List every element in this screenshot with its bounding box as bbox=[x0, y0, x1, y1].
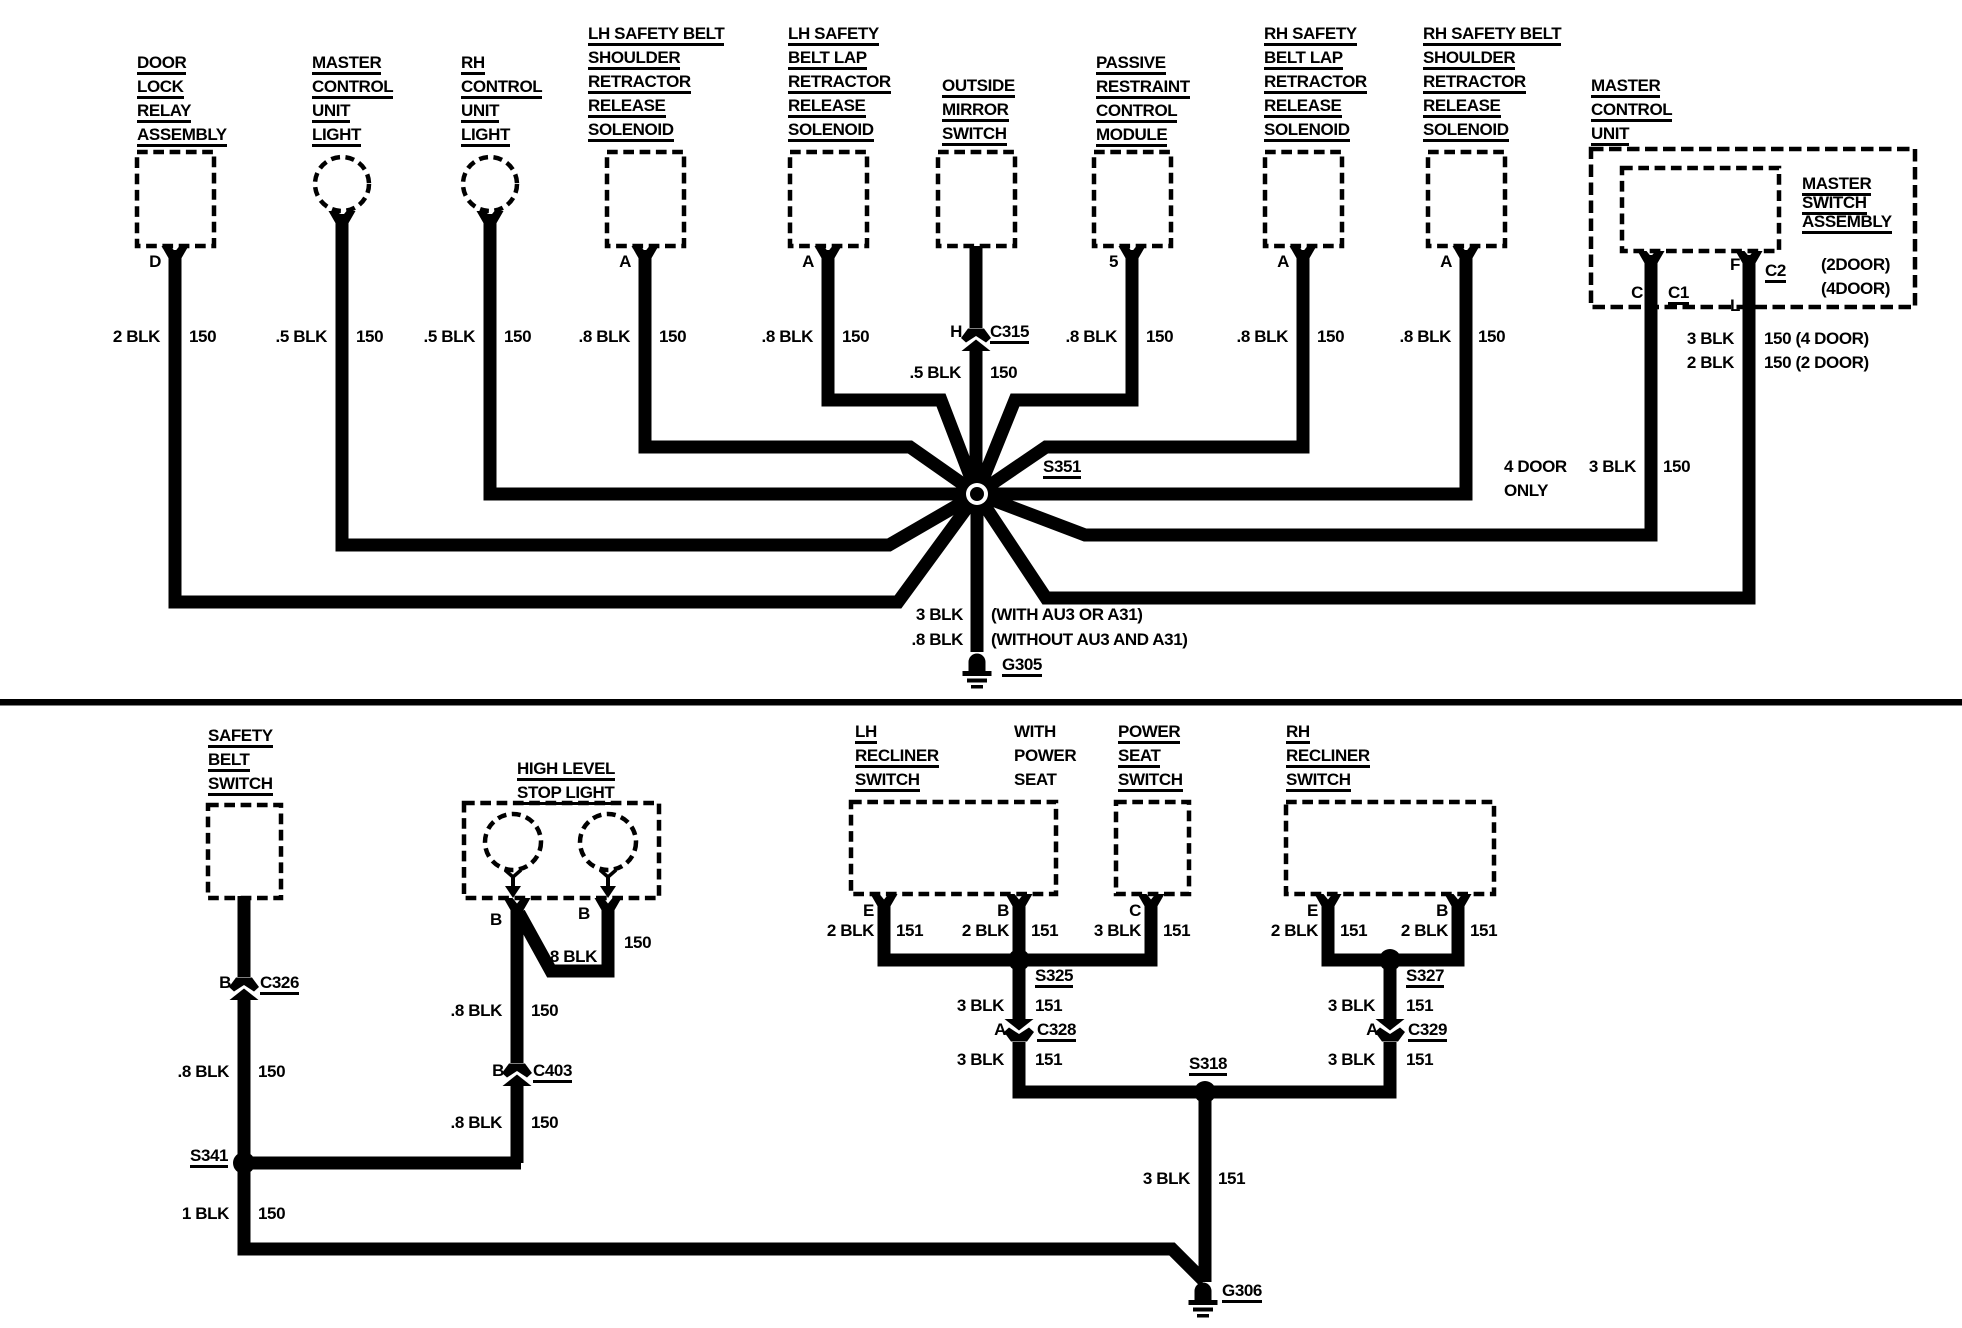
connector box: lh recliner switch bbox=[851, 802, 1056, 894]
wire: stop light left pin B down through C403 to splice S341 bbox=[511, 910, 524, 1163]
wire gauge label .5 BLK 150 (rh cu light wire) bbox=[395, 325, 475, 349]
connector box: passive restraint control module bbox=[1094, 152, 1171, 246]
wire: master control unit light to splice S351 bbox=[342, 214, 977, 545]
pin label E lh recliner bbox=[814, 899, 874, 923]
wire: master switch assembly pin C (C1) to splice S351 bbox=[977, 255, 1651, 535]
wire gauge label 3 BLK 150 on master C1 wire bbox=[1556, 455, 1636, 479]
label: RH SAFETY BELT LAP RETRACTOR RELEASE SOLENOID bbox=[1264, 22, 1367, 142]
label: OUTSIDE MIRROR SWITCH bbox=[942, 74, 1015, 146]
connector box: door lock relay assembly bbox=[137, 152, 214, 246]
label: POWER SEAT SWITCH bbox=[1118, 720, 1183, 792]
wire gauge label .8 BLK 150 (rh lap wire) bbox=[1208, 325, 1288, 349]
splice S341 dot bbox=[233, 1152, 255, 1174]
connector box: outside mirror switch bbox=[938, 152, 1015, 246]
wire: rh recliner pin E to splice S327 bbox=[1328, 906, 1390, 960]
connector box: high level stop light bbox=[464, 803, 659, 898]
pin fork B left of high level stop light bbox=[504, 898, 531, 911]
connector box: lh safety belt shoulder retractor release solenoid bbox=[607, 152, 684, 246]
wire gauge label 2 BLK 151 (lh recliner B) bbox=[929, 919, 1009, 943]
pin label A lh shoulder solenoid bbox=[571, 250, 631, 274]
pin label A at connector C328 bbox=[946, 1018, 1006, 1042]
wire: lh recliner pin B through C328 to splice S318 bbox=[1019, 906, 1205, 1092]
wire gauge label 3 BLK 151 above C329 bbox=[1295, 994, 1375, 1018]
pin label B lh recliner bbox=[949, 899, 1009, 923]
pin fork A of lh shoulder solenoid bbox=[632, 246, 659, 259]
connector box: rh recliner switch bbox=[1286, 802, 1494, 894]
wire gauge label 3 BLK 151 above C328 bbox=[924, 994, 1004, 1018]
splice label S325 bbox=[1035, 964, 1073, 988]
label: HIGH LEVEL STOP LIGHT bbox=[517, 757, 615, 805]
lamp symbol: rh control unit light bbox=[463, 157, 517, 211]
wire gauge label 3 BLK 151 below C328 bbox=[924, 1048, 1004, 1072]
pin fork F/L of master switch assembly bbox=[1736, 251, 1763, 264]
wire gauge label 3 BLK 150 (4 DOOR) master C2 wire bbox=[1654, 327, 1734, 351]
label: LH SAFETY BELT LAP RETRACTOR RELEASE SOLENOID bbox=[788, 22, 891, 142]
wire gauge label 3 BLK (WITH AU3 OR A31) bbox=[883, 603, 963, 627]
connector box: master switch assembly outer dashed box bbox=[1591, 149, 1915, 307]
pin label C master switch bbox=[1583, 281, 1643, 305]
pin label E rh recliner bbox=[1258, 899, 1318, 923]
wire gauge label .8 BLK (stop light jumper) bbox=[517, 945, 597, 969]
label: LH SAFETY BELT SHOULDER RETRACTOR RELEASE SOLENOID bbox=[588, 22, 724, 142]
pin fork A of rh lap solenoid bbox=[1290, 246, 1317, 259]
wire gauge label .5 BLK 150 (master cu light wire) bbox=[247, 325, 327, 349]
wire gauge label 2 BLK 151 (lh recliner E) bbox=[794, 919, 874, 943]
connector label C315 bbox=[990, 320, 1029, 344]
lamp symbol: high level stop light right bulb bbox=[580, 814, 636, 870]
connector box: master control unit inner dashed box bbox=[1622, 168, 1779, 251]
label: PASSIVE RESTRAINT CONTROL MODULE bbox=[1096, 51, 1190, 147]
connector label C329 bbox=[1408, 1018, 1447, 1042]
note label 4 DOOR ONLY bbox=[1504, 455, 1567, 503]
pin label A at connector C329 bbox=[1318, 1018, 1378, 1042]
connector label C403 bbox=[533, 1059, 572, 1083]
pin label C power seat switch bbox=[1081, 899, 1141, 923]
wire: lh shoulder retractor solenoid pin A to splice S351 bbox=[645, 250, 977, 494]
wire gauge label 3 BLK 151 (S318 ground wire) bbox=[1110, 1167, 1190, 1191]
pin fork E of lh recliner switch bbox=[871, 894, 898, 907]
wire gauge label .8 BLK 150 above C403 bbox=[422, 999, 502, 1023]
ground label G306 bbox=[1222, 1279, 1262, 1303]
wire: master switch assembly pins F/L (C2) to splice S351 bbox=[977, 255, 1749, 598]
pin fork B right of high level stop light bbox=[595, 898, 622, 911]
wire: splice S341 to high level stop light branch bbox=[244, 1157, 521, 1170]
pin label L master switch bbox=[1680, 294, 1740, 318]
wire gauge label .8 BLK 150 (safety belt switch wire) bbox=[149, 1060, 229, 1084]
connector label C1 master switch bbox=[1668, 281, 1689, 305]
wire gauge label .8 BLK 150 (lh shoulder wire) bbox=[550, 325, 630, 349]
splice S325 dot bbox=[1008, 949, 1030, 971]
connector box: rh safety belt shoulder retractor release solenoid bbox=[1428, 152, 1505, 246]
wire gauge label 2 BLK 150 (2 DOOR) master C2 wire bbox=[1654, 351, 1734, 375]
label: MASTER CONTROL UNIT (right) bbox=[1591, 74, 1672, 146]
splice label S341 bbox=[190, 1144, 228, 1168]
wire: passive restraint control module pin 5 to splice S351 bbox=[977, 250, 1132, 494]
pin fork B of rh recliner switch bbox=[1445, 894, 1472, 907]
pin label A rh shoulder solenoid bbox=[1392, 250, 1452, 274]
splice label S318 bbox=[1189, 1052, 1227, 1076]
wire: rh shoulder retractor solenoid pin A to splice S351 bbox=[977, 250, 1466, 494]
connector box: power seat switch bbox=[1116, 802, 1189, 894]
lamp symbol: master control unit light bbox=[315, 157, 369, 211]
wire gauge label 2 BLK 151 (rh recliner E) bbox=[1238, 919, 1318, 943]
wire gauge label 1 BLK 150 (ground run) bbox=[149, 1202, 229, 1226]
pin fork A of lh lap solenoid bbox=[815, 246, 842, 259]
wire gauge label 2 BLK circuit 150 (door lock wire) bbox=[80, 325, 160, 349]
label: RH CONTROL UNIT LIGHT bbox=[461, 51, 542, 147]
connector box: rh safety belt lap retractor release solenoid bbox=[1265, 152, 1342, 246]
connector C328 symbol bbox=[1004, 1019, 1034, 1042]
pin label 5 passive restraint module bbox=[1058, 250, 1118, 274]
pin fork 5 of passive restraint control module bbox=[1119, 246, 1146, 259]
wire: lh lap retractor solenoid pin A to splice S351 bbox=[828, 250, 977, 494]
ground label G305 bbox=[1002, 653, 1042, 677]
wire: lh recliner pin E to splice S325 bbox=[884, 906, 1019, 960]
pin fork D of door lock relay assembly bbox=[162, 246, 189, 259]
connector box: safety belt switch bbox=[208, 805, 281, 898]
wire: power seat switch pin C to splice S325 bbox=[1019, 906, 1151, 960]
splice label S327 bbox=[1406, 964, 1444, 988]
wire: safety belt switch through C326 to splice S341 bbox=[238, 896, 251, 1163]
pin fork C of master switch assembly bbox=[1638, 251, 1665, 264]
wire gauge label .8 BLK 150 (rh shoulder wire) bbox=[1371, 325, 1451, 349]
wire: rh lap retractor solenoid pin A to splice S351 bbox=[977, 250, 1303, 494]
label: MASTER SWITCH ASSEMBLY bbox=[1802, 174, 1892, 231]
wire gauge label 3 BLK 151 below C329 bbox=[1295, 1048, 1375, 1072]
pin fork E of rh recliner switch bbox=[1315, 894, 1342, 907]
wire gauge label .5 BLK 150 (mirror switch wire below C315) bbox=[881, 361, 961, 385]
pin label A rh lap solenoid bbox=[1229, 250, 1289, 274]
connector label C2 master switch bbox=[1765, 259, 1786, 283]
separator line between upper and lower diagram sections bbox=[0, 699, 1962, 706]
wire: rh control unit light to splice S351 bbox=[490, 214, 977, 494]
wire gauge label .8 BLK (WITHOUT AU3 AND A31) bbox=[883, 628, 963, 652]
pin label B at connector C403 bbox=[444, 1059, 504, 1083]
connector C403 symbol on stop light wire bbox=[502, 1064, 532, 1087]
label: WITH POWER SEAT bbox=[1014, 720, 1076, 792]
ground symbol G306 bbox=[1189, 1283, 1218, 1318]
pin label B rh recliner bbox=[1388, 899, 1448, 923]
splice S351 star junction bbox=[958, 475, 996, 513]
label: SAFETY BELT SWITCH bbox=[208, 724, 273, 796]
ground symbol G305 bbox=[963, 654, 992, 689]
wire gauge label .8 BLK 150 below C403 bbox=[422, 1111, 502, 1135]
connector C315 symbol on mirror switch wire bbox=[961, 329, 991, 352]
circuit label 150 (stop light right) bbox=[624, 931, 651, 955]
wire: splice S327 through C329 to splice S318 bbox=[1205, 960, 1390, 1092]
pin label D door lock relay bbox=[101, 250, 161, 274]
pin fork A of rh shoulder solenoid bbox=[1453, 246, 1480, 259]
pin fork of master control unit light bbox=[329, 211, 356, 224]
wire gauge label .8 BLK 150 (lh lap wire) bbox=[733, 325, 813, 349]
label: RH SAFETY BELT SHOULDER RETRACTOR RELEASE SOLENOID bbox=[1423, 22, 1561, 142]
wire: splice S318 to ground G306 bbox=[1199, 1092, 1212, 1282]
label (4DOOR) bbox=[1821, 277, 1890, 301]
wire: rh recliner pin B to splice S327 bbox=[1390, 906, 1458, 960]
splice S327 dot bbox=[1379, 949, 1401, 971]
label: LH RECLINER SWITCH bbox=[855, 720, 939, 792]
wire gauge label 3 BLK 151 (power seat C) bbox=[1061, 919, 1141, 943]
wire: stop light right pin B joining left wire bbox=[519, 910, 608, 971]
connector C326 symbol on safety belt switch wire bbox=[229, 978, 259, 1001]
lamp arrow to pin B left bulb bbox=[505, 870, 521, 898]
pin label F master switch bbox=[1680, 253, 1740, 277]
label: RH RECLINER SWITCH bbox=[1286, 720, 1370, 792]
wire: outside mirror switch pin H through C315 to splice S351 bbox=[970, 246, 983, 494]
connector C329 symbol bbox=[1375, 1019, 1405, 1042]
connector label C326 bbox=[260, 971, 299, 995]
pin fork of rh control unit light bbox=[477, 211, 504, 224]
label: MASTER CONTROL UNIT LIGHT bbox=[312, 51, 393, 147]
pin label A lh lap solenoid bbox=[754, 250, 814, 274]
wire: splice S341 to ground G306 long run bbox=[244, 1163, 1204, 1281]
label: DOOR LOCK RELAY ASSEMBLY bbox=[137, 51, 227, 147]
wire gauge label .8 BLK 150 (passive restraint wire) bbox=[1037, 325, 1117, 349]
splice S318 dot bbox=[1194, 1081, 1216, 1103]
wire: splice S351 to ground G305 bbox=[971, 494, 984, 652]
splice label S351 bbox=[1043, 455, 1081, 479]
pin fork C of power seat switch bbox=[1138, 894, 1165, 907]
pin label B right bulb stop light bbox=[578, 902, 590, 926]
wire: door lock relay pin D to splice S351 bbox=[175, 250, 977, 602]
label (2DOOR) bbox=[1821, 253, 1890, 277]
pin label B left bulb stop light bbox=[490, 908, 502, 932]
connector box: lh safety belt lap retractor release solenoid bbox=[790, 152, 867, 246]
pin label H at connector C315 bbox=[902, 320, 962, 344]
lamp symbol: high level stop light left bulb bbox=[485, 814, 541, 870]
pin fork B of lh recliner switch bbox=[1006, 894, 1033, 907]
wire gauge label 2 BLK 151 (rh recliner B) bbox=[1368, 919, 1448, 943]
connector label C328 bbox=[1037, 1018, 1076, 1042]
pin label B at connector C326 bbox=[171, 971, 231, 995]
lamp arrow to pin B right bulb bbox=[600, 870, 616, 898]
